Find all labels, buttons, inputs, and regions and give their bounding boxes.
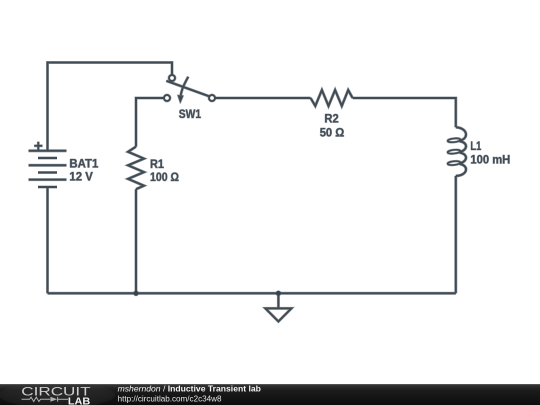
svg-text:L1: L1	[470, 139, 481, 153]
svg-text:100 mH: 100 mH	[470, 153, 510, 167]
svg-text:50 Ω: 50 Ω	[320, 126, 345, 140]
svg-text:R2: R2	[324, 112, 339, 126]
svg-text:LAB: LAB	[68, 397, 90, 405]
svg-text:R1: R1	[150, 157, 164, 171]
svg-text:http://circuitlab.com/c2c34w8: http://circuitlab.com/c2c34w8	[118, 393, 222, 403]
svg-text:BAT1: BAT1	[69, 157, 98, 171]
svg-text:100 Ω: 100 Ω	[150, 170, 179, 184]
svg-text:msherndon / Inductive Transien: msherndon / Inductive Transient lab	[118, 383, 261, 393]
svg-text:12 V: 12 V	[69, 170, 92, 184]
svg-text:SW1: SW1	[179, 107, 202, 121]
